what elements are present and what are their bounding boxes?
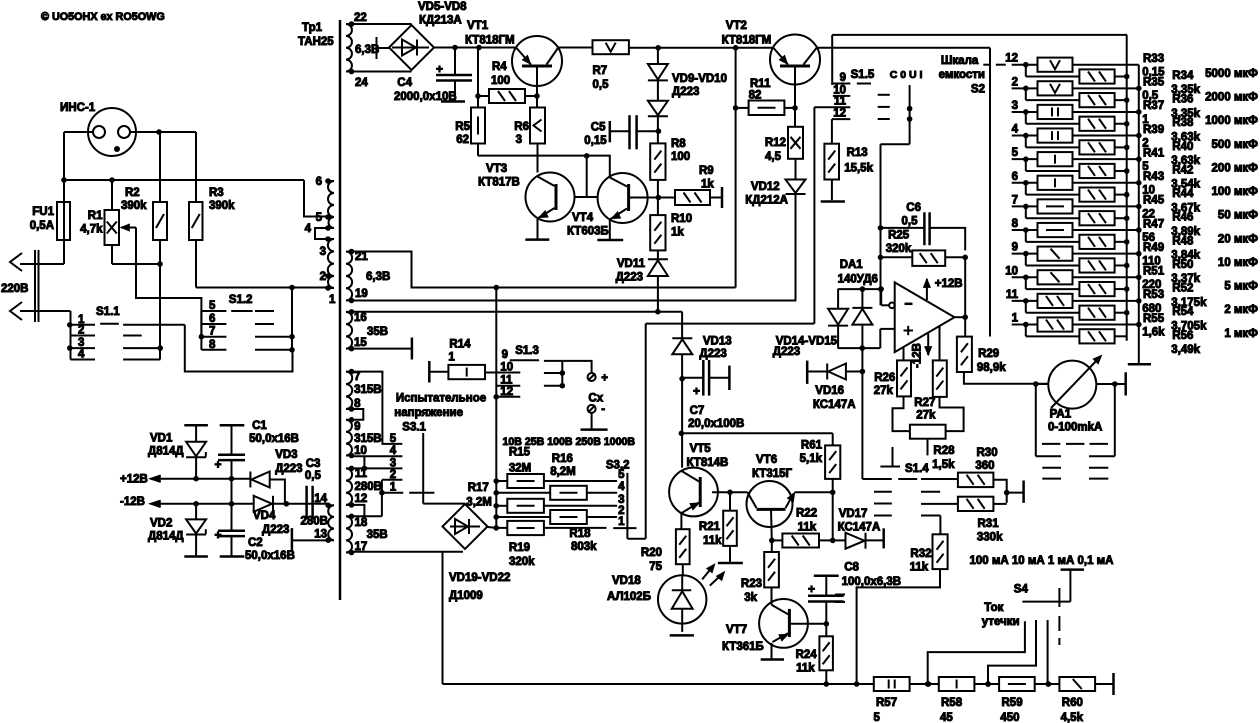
svg-text:R51: R51: [1143, 266, 1165, 278]
svg-text:C1: C1: [252, 420, 267, 432]
svg-text:10: 10: [833, 84, 846, 96]
svg-text:8,2М: 8,2М: [550, 466, 576, 478]
svg-text:27k: 27k: [874, 385, 894, 397]
svg-text:Д223: Д223: [275, 463, 302, 475]
svg-text:VD11: VD11: [617, 258, 646, 270]
svg-text:5: 5: [316, 212, 323, 224]
svg-text:1: 1: [1012, 313, 1019, 325]
svg-text:Д223: Д223: [262, 524, 289, 536]
svg-text:R53: R53: [1143, 289, 1164, 301]
svg-text:Д223: Д223: [773, 346, 800, 358]
svg-text:R34: R34: [1172, 70, 1194, 82]
svg-text:11k: 11k: [796, 663, 815, 675]
svg-text:R43: R43: [1143, 171, 1164, 183]
svg-text:R36: R36: [1172, 94, 1193, 106]
svg-text:R5: R5: [455, 121, 470, 133]
svg-text:4: 4: [390, 445, 397, 457]
svg-text:R38: R38: [1172, 117, 1194, 129]
svg-text:VT4: VT4: [572, 212, 594, 224]
svg-text:10: 10: [500, 362, 513, 374]
svg-text:R26: R26: [874, 372, 895, 384]
svg-text:R46: R46: [1172, 212, 1193, 224]
svg-text:+: +: [808, 582, 815, 596]
svg-text:C8: C8: [844, 562, 859, 574]
svg-text:11k: 11k: [703, 535, 722, 547]
svg-text:10 мкФ: 10 мкФ: [1218, 257, 1258, 269]
svg-text:R42: R42: [1172, 164, 1193, 176]
svg-text:0-100mkA: 0-100mkA: [1048, 422, 1102, 434]
svg-text:140УД6: 140УД6: [838, 274, 878, 286]
svg-text:390k: 390k: [121, 200, 147, 212]
svg-text:9: 9: [354, 421, 360, 433]
svg-text:0,5A: 0,5A: [30, 220, 54, 232]
svg-text:12: 12: [355, 493, 368, 505]
svg-text:+12В: +12В: [120, 474, 148, 486]
svg-text:R25: R25: [888, 230, 910, 242]
svg-text:50,0x16В: 50,0x16В: [249, 433, 299, 445]
svg-text:3: 3: [1012, 100, 1018, 112]
svg-text:C 0 U I: C 0 U I: [890, 69, 923, 81]
svg-text:5: 5: [1012, 147, 1019, 159]
svg-text:КС147А: КС147А: [838, 522, 881, 534]
svg-text:0,5: 0,5: [593, 79, 610, 91]
svg-text:803k: 803k: [571, 541, 597, 553]
svg-text:Д814Д: Д814Д: [148, 531, 184, 543]
svg-text:S2: S2: [971, 84, 985, 96]
svg-text:S1.5: S1.5: [851, 69, 875, 81]
svg-text:КТ603Б: КТ603Б: [567, 226, 609, 238]
svg-text:21: 21: [355, 251, 368, 263]
svg-text:4,7k: 4,7k: [80, 224, 103, 236]
svg-text:R52: R52: [1172, 283, 1193, 295]
svg-text:6: 6: [209, 313, 215, 325]
svg-text:32М: 32М: [509, 463, 531, 475]
svg-text:R44: R44: [1172, 188, 1194, 200]
svg-text:VD3: VD3: [275, 449, 297, 461]
svg-text:VD1: VD1: [150, 433, 173, 445]
svg-text:1: 1: [448, 352, 455, 364]
svg-text:2: 2: [390, 469, 396, 481]
svg-text:3: 3: [390, 457, 396, 469]
svg-text:VD5-VD8: VD5-VD8: [418, 1, 467, 13]
svg-text:4,5: 4,5: [765, 151, 782, 163]
svg-text:Д223: Д223: [616, 272, 643, 284]
svg-text:315В: 315В: [354, 433, 382, 445]
svg-text:8: 8: [209, 339, 216, 351]
svg-text:R47: R47: [1143, 218, 1164, 230]
svg-text:R61: R61: [801, 440, 823, 452]
svg-text:C2: C2: [248, 537, 263, 549]
svg-text:7: 7: [209, 326, 215, 338]
svg-text:15: 15: [354, 337, 367, 349]
svg-text:R28: R28: [933, 445, 955, 457]
svg-text:12: 12: [1005, 53, 1018, 65]
svg-text:11k: 11k: [798, 522, 817, 534]
svg-text:1,6k: 1,6k: [1142, 326, 1165, 338]
svg-text:Шкала: Шкала: [941, 55, 979, 67]
svg-text:5: 5: [390, 433, 397, 445]
svg-text:S3.1: S3.1: [402, 421, 426, 433]
svg-text:R60: R60: [1062, 697, 1083, 709]
svg-text:C6: C6: [906, 202, 921, 214]
svg-text:R32: R32: [910, 548, 931, 560]
svg-text:5: 5: [209, 300, 216, 312]
svg-text:+12В: +12В: [935, 278, 963, 290]
svg-text:емкости: емкости: [939, 69, 985, 81]
svg-text:Ток: Ток: [984, 602, 1003, 614]
svg-text:360: 360: [975, 460, 994, 472]
svg-text:Д814Д: Д814Д: [148, 446, 184, 458]
svg-text:КТ818ГМ: КТ818ГМ: [465, 35, 515, 47]
svg-text:35В: 35В: [367, 326, 388, 338]
svg-text:2000 мкФ: 2000 мкФ: [1205, 92, 1258, 104]
svg-text:5,1k: 5,1k: [800, 453, 823, 465]
svg-text:280В: 280В: [355, 481, 383, 493]
svg-text:R3: R3: [209, 187, 224, 199]
svg-text:2 мкФ: 2 мкФ: [1224, 304, 1258, 316]
svg-text:9: 9: [1012, 242, 1018, 254]
svg-text:4: 4: [618, 481, 625, 493]
svg-text:18: 18: [355, 517, 368, 529]
svg-text:Д223: Д223: [672, 86, 699, 98]
svg-text:7: 7: [1012, 194, 1018, 206]
svg-text:2: 2: [320, 271, 326, 283]
svg-text:62: 62: [456, 134, 469, 146]
svg-text:3: 3: [78, 337, 84, 349]
svg-text:16: 16: [354, 312, 367, 324]
svg-text:R24: R24: [796, 649, 818, 661]
svg-text:-: -: [601, 404, 605, 416]
svg-text:VT2: VT2: [726, 20, 747, 32]
svg-text:1,5k: 1,5k: [932, 459, 955, 471]
svg-text:R21: R21: [699, 521, 721, 533]
svg-text:VD19-VD22: VD19-VD22: [449, 572, 510, 584]
svg-text:100,0x6,3В: 100,0x6,3В: [842, 576, 901, 588]
svg-text:200 мкФ: 200 мкФ: [1212, 162, 1259, 174]
svg-text:S1.1: S1.1: [96, 306, 120, 318]
svg-text:9: 9: [502, 349, 508, 361]
svg-text:VT1: VT1: [467, 20, 489, 32]
svg-text:R9: R9: [699, 165, 714, 177]
svg-text:VD18: VD18: [612, 575, 641, 587]
svg-text:6: 6: [1012, 171, 1018, 183]
svg-text:5: 5: [618, 469, 625, 481]
svg-text:+: +: [214, 528, 221, 542]
svg-text:VT7: VT7: [726, 624, 747, 636]
svg-text:50 мкФ: 50 мкФ: [1218, 210, 1258, 222]
svg-text:19: 19: [355, 288, 368, 300]
svg-text:12: 12: [833, 108, 846, 120]
svg-text:1: 1: [390, 482, 397, 494]
svg-text:1000 мкФ: 1000 мкФ: [1205, 115, 1258, 127]
svg-text:9: 9: [840, 72, 846, 84]
svg-text:R7: R7: [593, 65, 608, 77]
svg-text:R49: R49: [1143, 242, 1164, 254]
svg-text:R18: R18: [569, 528, 591, 540]
svg-text:6,3В: 6,3В: [366, 271, 390, 283]
svg-text:5: 5: [874, 712, 881, 723]
svg-text:2: 2: [1012, 76, 1018, 88]
svg-text:R59: R59: [1002, 697, 1023, 709]
svg-text:© UO5OHX ex RO5OWG: © UO5OHX ex RO5OWG: [41, 11, 165, 23]
svg-text:50,0x16В: 50,0x16В: [245, 550, 295, 562]
svg-text:VD17: VD17: [839, 508, 868, 520]
svg-text:27k: 27k: [916, 410, 936, 422]
svg-text:20,0x100В: 20,0x100В: [688, 418, 744, 430]
svg-text:35В: 35В: [367, 529, 388, 541]
svg-text:R54: R54: [1172, 306, 1194, 318]
svg-text:6: 6: [316, 176, 322, 188]
svg-text:100: 100: [491, 75, 510, 87]
svg-text:S1.4: S1.4: [905, 463, 929, 475]
svg-text:КД212А: КД212А: [745, 195, 788, 207]
svg-text:C5: C5: [591, 122, 606, 134]
svg-text:R56: R56: [1172, 330, 1193, 342]
svg-text:10: 10: [1005, 265, 1018, 277]
svg-text:напряжение: напряжение: [394, 407, 463, 419]
svg-text:Тр1: Тр1: [302, 22, 323, 34]
svg-text:VD9-VD10: VD9-VD10: [672, 73, 727, 85]
svg-text:КД213А: КД213А: [419, 15, 462, 27]
svg-text:R15: R15: [509, 447, 531, 459]
svg-text:R58: R58: [941, 697, 963, 709]
svg-text:R16: R16: [552, 453, 573, 465]
svg-text:4: 4: [1012, 124, 1019, 136]
svg-text:VD13: VD13: [703, 336, 732, 348]
svg-text:S1.2: S1.2: [229, 294, 253, 306]
svg-text:7: 7: [354, 371, 360, 383]
svg-text:450: 450: [1000, 712, 1019, 723]
svg-text:-12В: -12В: [912, 343, 924, 368]
svg-text:5 мкФ: 5 мкФ: [1224, 281, 1258, 293]
svg-text:+: +: [601, 373, 608, 385]
svg-text:45: 45: [940, 712, 953, 723]
svg-text:R20: R20: [641, 547, 662, 559]
svg-text:315В: 315В: [354, 384, 382, 396]
svg-text:R11: R11: [750, 78, 771, 90]
svg-text:КТ817В: КТ817В: [478, 177, 520, 189]
svg-text:КТ814В: КТ814В: [687, 457, 729, 469]
svg-text:4: 4: [305, 223, 312, 235]
svg-text:2000,0x10В: 2000,0x10В: [394, 91, 457, 103]
svg-text:0,5: 0,5: [902, 216, 919, 228]
svg-text:R8: R8: [671, 138, 686, 150]
svg-text:15,5k: 15,5k: [844, 163, 873, 175]
svg-text:S4: S4: [1014, 584, 1029, 596]
svg-text:4: 4: [78, 349, 85, 361]
svg-text:R4: R4: [492, 61, 507, 73]
svg-text:R6: R6: [514, 121, 529, 133]
svg-text:R14: R14: [449, 339, 471, 351]
svg-text:-12В: -12В: [120, 496, 145, 508]
svg-text:2: 2: [78, 325, 84, 337]
svg-text:+: +: [693, 384, 700, 398]
svg-text:КТ315Г: КТ315Г: [752, 468, 793, 480]
svg-text:Д1009: Д1009: [449, 590, 483, 602]
svg-text:280В: 280В: [301, 516, 329, 528]
svg-text:3: 3: [516, 134, 522, 146]
svg-text:1k: 1k: [701, 179, 714, 191]
svg-text:320k: 320k: [509, 556, 535, 568]
svg-text:22: 22: [354, 12, 367, 24]
svg-text:R10: R10: [671, 213, 692, 225]
svg-text:4,5k: 4,5k: [1061, 712, 1084, 723]
svg-text:1: 1: [329, 294, 336, 306]
svg-text:R39: R39: [1143, 124, 1164, 136]
svg-text:+: +: [436, 62, 443, 76]
svg-text:R27: R27: [914, 397, 935, 409]
svg-text:3,2М: 3,2М: [466, 497, 492, 509]
svg-text:11: 11: [834, 96, 847, 108]
svg-text:330k: 330k: [977, 532, 1003, 544]
svg-text:R12: R12: [765, 137, 786, 149]
svg-text:C3: C3: [306, 458, 321, 470]
svg-text:3: 3: [618, 494, 624, 506]
svg-text:100: 100: [671, 151, 690, 163]
svg-text:VT6: VT6: [756, 454, 777, 466]
svg-text:11k: 11k: [910, 562, 929, 574]
svg-text:АЛ102Б: АЛ102Б: [607, 591, 651, 603]
svg-text:C7: C7: [690, 405, 705, 417]
svg-text:R22: R22: [796, 508, 817, 520]
svg-text:100 мкФ: 100 мкФ: [1212, 186, 1259, 198]
svg-text:FU1: FU1: [32, 206, 54, 218]
svg-text:VD16: VD16: [815, 385, 844, 397]
svg-text:R40: R40: [1172, 141, 1193, 153]
svg-text:390k: 390k: [209, 200, 235, 212]
svg-text:R50: R50: [1172, 259, 1193, 271]
svg-text:0,5: 0,5: [305, 470, 322, 482]
svg-text:1 мкФ: 1 мкФ: [1224, 328, 1258, 340]
svg-text:R17: R17: [468, 482, 489, 494]
svg-text:R29: R29: [978, 348, 999, 360]
svg-text:R45: R45: [1143, 195, 1165, 207]
svg-text:R1: R1: [88, 210, 103, 222]
svg-text:R41: R41: [1143, 147, 1165, 159]
svg-text:R48: R48: [1172, 235, 1194, 247]
svg-text:+: +: [214, 458, 221, 472]
svg-text:11: 11: [1006, 289, 1019, 301]
svg-text:24: 24: [355, 77, 368, 89]
svg-text:КТ361Б: КТ361Б: [722, 641, 764, 653]
svg-text:R19: R19: [509, 542, 530, 554]
svg-text:утечки: утечки: [982, 616, 1020, 628]
svg-text:PA1: PA1: [1050, 408, 1072, 420]
svg-text:Д223: Д223: [699, 348, 726, 360]
svg-text:R57: R57: [876, 697, 897, 709]
svg-text:1k: 1k: [671, 227, 684, 239]
svg-text:1: 1: [618, 516, 625, 528]
svg-text:VD4: VD4: [253, 510, 276, 522]
svg-text:100 мА 10 мА 1 мА 0,1 мА: 100 мА 10 мА 1 мА 0,1 мА: [970, 555, 1114, 567]
svg-text:R31: R31: [978, 518, 1000, 530]
svg-text:R23: R23: [741, 578, 762, 590]
svg-text:500 мкФ: 500 мкФ: [1212, 139, 1259, 151]
svg-text:R37: R37: [1143, 100, 1164, 112]
svg-text:R35: R35: [1143, 77, 1165, 89]
svg-text:КТ818ГМ: КТ818ГМ: [722, 35, 772, 47]
svg-text:VT3: VT3: [486, 163, 507, 175]
svg-text:КС147А: КС147А: [813, 399, 856, 411]
svg-text:320k: 320k: [886, 243, 912, 255]
svg-text:ИНС-1: ИНС-1: [60, 102, 96, 114]
svg-text:82: 82: [749, 90, 762, 102]
svg-text:3k: 3k: [744, 592, 757, 604]
svg-text:R55: R55: [1143, 313, 1165, 325]
svg-text:13: 13: [314, 529, 327, 541]
svg-text:3: 3: [320, 246, 326, 258]
svg-text:3,49k: 3,49k: [1171, 344, 1200, 356]
svg-text:Испытательное: Испытательное: [396, 393, 486, 405]
svg-text:0,15: 0,15: [584, 135, 607, 147]
svg-text:R13: R13: [847, 147, 868, 159]
svg-text:5000 мкФ: 5000 мкФ: [1205, 68, 1258, 80]
svg-text:20 мкФ: 20 мкФ: [1218, 233, 1258, 245]
svg-text:VT5: VT5: [690, 443, 712, 455]
svg-text:VD2: VD2: [150, 518, 172, 530]
svg-text:R2: R2: [125, 187, 140, 199]
svg-text:C4: C4: [397, 77, 412, 89]
svg-text:VD12: VD12: [751, 181, 780, 193]
svg-text:ТАН25: ТАН25: [298, 36, 334, 48]
svg-text:DA1: DA1: [840, 259, 864, 271]
svg-text:98,9k: 98,9k: [977, 362, 1006, 374]
svg-text:S1.3: S1.3: [515, 345, 539, 357]
svg-text:75: 75: [649, 561, 662, 573]
svg-text:8: 8: [1012, 218, 1019, 230]
svg-text:R30: R30: [977, 447, 998, 459]
svg-text:R33: R33: [1143, 53, 1164, 65]
svg-text:220В: 220В: [1, 283, 29, 295]
